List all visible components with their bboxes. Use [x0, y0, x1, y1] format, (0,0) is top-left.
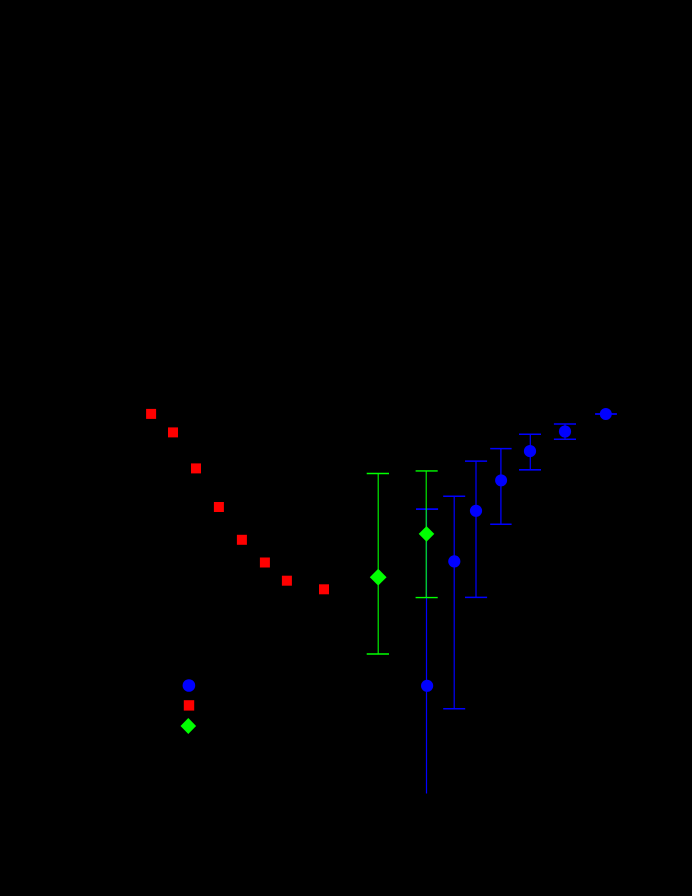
- blue marker 1: [421, 680, 433, 692]
- blue marker 4: [495, 474, 507, 486]
- green series error bars: [367, 471, 438, 654]
- red square 1: [146, 409, 156, 419]
- blue marker 5: [524, 445, 536, 457]
- blue point 7 horizontal error bar: [595, 413, 617, 415]
- red square 3: [191, 463, 201, 473]
- red square 8: [319, 584, 329, 594]
- blue marker 3: [470, 505, 482, 517]
- red square 5: [237, 535, 247, 545]
- legend marker: red square: [184, 700, 194, 710]
- red square 6: [260, 558, 270, 568]
- blue point 2 error bar: [453, 496, 455, 709]
- blue marker 7: [600, 408, 612, 420]
- blue point 4 error bar: [500, 449, 502, 525]
- green diamond 1: [370, 569, 387, 586]
- red square 7: [282, 576, 292, 586]
- blue point 6 error bar: [564, 424, 566, 439]
- red square 4: [214, 502, 224, 512]
- green series markers: [370, 526, 435, 586]
- green diamond 2: [419, 526, 435, 542]
- blue marker 2: [448, 555, 460, 567]
- blue point 5 error bar: [529, 434, 531, 470]
- green point 2 error bar: [425, 471, 427, 598]
- blue marker 6: [559, 425, 571, 437]
- red series markers: [146, 409, 329, 594]
- red square 2: [168, 427, 178, 437]
- blue series markers: [421, 408, 612, 692]
- blue point 1 error bar (x=427, clipped below, no bottom cap): [426, 509, 428, 793]
- legend marker: green diamond: [181, 718, 197, 734]
- blue point 3 error bar: [475, 461, 477, 597]
- blue series error bars: [416, 414, 617, 794]
- legend marker: blue circle: [183, 679, 196, 692]
- green point 1 error bar: [377, 474, 379, 655]
